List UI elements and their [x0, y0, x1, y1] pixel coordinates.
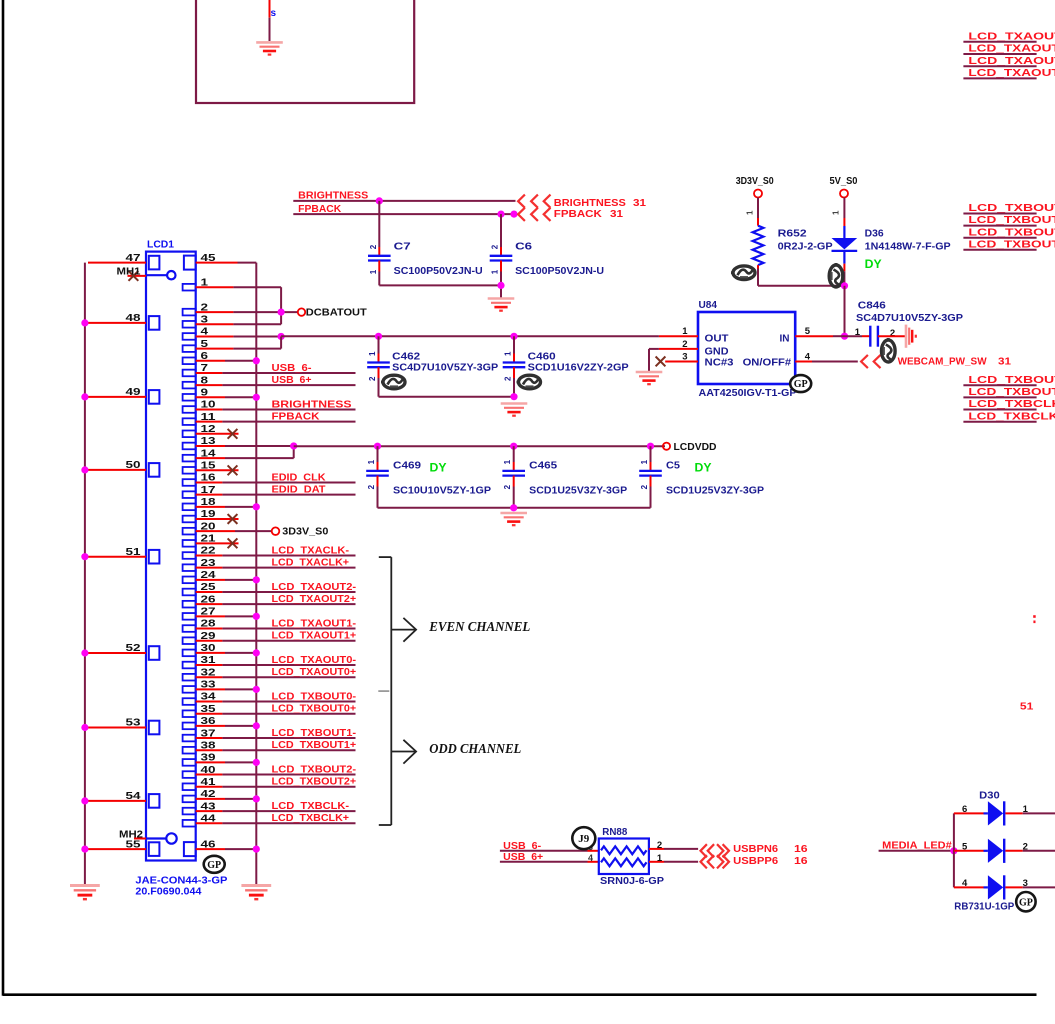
diode D30 element 4-3: [954, 886, 984, 888]
svg-text:LCD_TXBOUT2-: LCD_TXBOUT2-: [968, 375, 1055, 386]
svg-text:1: 1: [682, 326, 688, 337]
svg-text:3D3V_S0: 3D3V_S0: [282, 526, 328, 537]
wire: [757, 198, 759, 219]
pin 3 NC#3 wire: [665, 361, 698, 363]
svg-text:1: 1: [368, 351, 377, 356]
svg-text:1: 1: [746, 210, 755, 215]
DNI stamp: [381, 375, 405, 389]
svg-text:LCD_TXAOUT0+: LCD_TXAOUT0+: [968, 44, 1055, 55]
pin 12 (nc): [183, 431, 196, 438]
svg-text:47: 47: [126, 253, 142, 264]
mounting hole MH1: [167, 271, 175, 279]
svg-text:LCD_TXAOUT0-: LCD_TXAOUT0-: [272, 655, 357, 666]
svg-text:LCD_TXBOUT1+: LCD_TXBOUT1+: [272, 740, 357, 751]
capacitor C465: [513, 446, 515, 462]
svg-text:1: 1: [657, 853, 663, 864]
svg-text:SC100P50V2JN-U: SC100P50V2JN-U: [515, 266, 604, 277]
svg-text:5V_S0: 5V_S0: [830, 176, 858, 187]
pin 45: [184, 256, 196, 270]
svg-text:SCD1U16V2ZY-2GP: SCD1U16V2ZY-2GP: [528, 362, 629, 373]
svg-text:LCD_TXAOUT0+: LCD_TXAOUT0+: [272, 667, 357, 678]
pin 23 net LCD_TXACLK+: [183, 564, 196, 571]
pin 44 net LCD_TXBCLK+: [183, 820, 196, 827]
svg-text:GP: GP: [1019, 897, 1033, 908]
svg-text:2: 2: [368, 376, 377, 381]
pin 21 (nc): [183, 540, 196, 547]
ground: [256, 42, 283, 54]
pin 29 net LCD_TXAOUT1+: [183, 637, 196, 644]
svg-text:SC100P50V2JN-U: SC100P50V2JN-U: [394, 266, 483, 277]
svg-text:16: 16: [794, 856, 808, 867]
svg-text:DY: DY: [695, 463, 712, 475]
svg-text:2: 2: [1023, 841, 1028, 852]
pin 43 net LCD_TXBCLK-: [183, 808, 196, 815]
circled J9: [572, 827, 595, 849]
ground: [70, 886, 100, 900]
svg-text:2: 2: [503, 484, 512, 489]
svg-text:1: 1: [640, 459, 649, 464]
pin 2 + DCBATOUT: [183, 309, 196, 316]
pin 10 net BRIGHTNESS: [183, 406, 196, 413]
pin 40 net LCD_TXBOUT2-: [183, 771, 196, 778]
arrow ODD CHANNEL: [392, 751, 416, 753]
svg-text:C460: C460: [528, 352, 557, 363]
resistor RN88 element b: [601, 858, 647, 866]
svg-text:C846: C846: [858, 301, 887, 312]
pin 41 net LCD_TXBOUT2+: [183, 783, 196, 790]
DNI stamp: [829, 263, 843, 287]
pin 16 net EDID_CLK: [183, 479, 196, 486]
svg-text:1: 1: [369, 269, 378, 274]
wire pin4/5 to U84: [281, 335, 659, 337]
pin 8 net USB_6+: [183, 382, 196, 389]
svg-text:1: 1: [503, 459, 512, 464]
ground: [500, 513, 527, 525]
ground: [636, 372, 663, 384]
svg-text:1N4148W-7-F-GP: 1N4148W-7-F-GP: [865, 242, 951, 253]
GP stamp: [1016, 892, 1035, 911]
svg-text:4: 4: [805, 352, 811, 363]
svg-text:1: 1: [855, 327, 861, 338]
off-page connector USBPN6/USBPP6: [701, 844, 707, 857]
svg-text:31: 31: [610, 209, 624, 220]
svg-text:LCD_TXBOUT1+: LCD_TXBOUT1+: [968, 239, 1055, 250]
svg-text:50: 50: [126, 460, 142, 471]
svg-text:AAT4250IGV-T1-GP: AAT4250IGV-T1-GP: [699, 388, 797, 399]
svg-text:BRIGHTNESS: BRIGHTNESS: [554, 198, 626, 209]
wire: [844, 286, 846, 336]
resistor RN88 element a: [601, 846, 647, 854]
pin 42 (gnd): [183, 796, 196, 803]
svg-text:USBPN6: USBPN6: [733, 844, 778, 855]
pin 34 net LCD_TXBOUT0-: [183, 698, 196, 705]
pin 22 net LCD_TXACLK-: [183, 552, 196, 559]
svg-text:EDID_DAT: EDID_DAT: [272, 484, 326, 495]
svg-text:RN88: RN88: [602, 827, 627, 838]
svg-text:2: 2: [640, 484, 649, 489]
svg-text:C462: C462: [392, 352, 421, 363]
svg-text:LCD_TXAOUT1-: LCD_TXAOUT1-: [968, 56, 1055, 67]
svg-text:5: 5: [805, 326, 811, 337]
pin 17 net EDID_DAT: [183, 491, 196, 498]
arrow EVEN CHANNEL: [392, 629, 416, 631]
svg-text:SCD1U25V3ZY-3GP: SCD1U25V3ZY-3GP: [529, 485, 627, 496]
diode D36: [843, 226, 845, 238]
ground: [241, 886, 271, 900]
pin 3: [183, 321, 196, 328]
capacitor C5: [650, 446, 652, 462]
svg-text:LCD1: LCD1: [147, 240, 174, 251]
svg-text:LCD_TXBOUT0+: LCD_TXBOUT0+: [272, 704, 357, 715]
svg-text:31: 31: [633, 198, 647, 209]
pin 52: [149, 646, 160, 660]
ground: [501, 404, 528, 416]
pin 15 (nc): [183, 467, 196, 474]
pin 11 net FPBACK: [183, 418, 196, 425]
pin 2 GND wire: [659, 348, 698, 350]
svg-text:LCD_TXBCLK-: LCD_TXBCLK-: [272, 801, 350, 812]
pin 5 IN wire: [795, 335, 833, 337]
svg-text:SC10U10V5ZY-1GP: SC10U10V5ZY-1GP: [393, 485, 491, 496]
pin 48: [149, 316, 160, 330]
svg-text:4: 4: [588, 853, 593, 863]
svg-text:ON/OFF#: ON/OFF#: [743, 358, 792, 369]
svg-text:LCD_TXAOUT1-: LCD_TXAOUT1-: [272, 618, 357, 629]
pin 31 net LCD_TXAOUT0-: [183, 662, 196, 669]
svg-text:USBPP6: USBPP6: [733, 856, 778, 867]
connector LCD1 body: [146, 252, 196, 861]
svg-text:IN: IN: [780, 333, 790, 344]
diode D30 element 5-2: [954, 850, 984, 852]
pin 35 net LCD_TXBOUT0+: [183, 710, 196, 717]
svg-text:U84: U84: [699, 300, 718, 311]
svg-text:D36: D36: [865, 228, 884, 239]
svg-text:3: 3: [682, 352, 687, 363]
svg-text:GP: GP: [207, 860, 221, 871]
svg-text:NC#3: NC#3: [705, 358, 734, 369]
junction: [497, 211, 504, 218]
pin 38 net LCD_TXBOUT1+: [183, 747, 196, 754]
wire: [269, 0, 271, 18]
pin 1 wire: [649, 861, 664, 863]
pin 54: [149, 794, 160, 808]
sheet frame left border: [2, 0, 5, 996]
DNI stamp: [882, 338, 896, 362]
pin 55: [149, 842, 160, 856]
svg-text:6: 6: [962, 804, 967, 815]
svg-text:D30: D30: [979, 791, 1000, 802]
svg-text:J9: J9: [578, 833, 590, 845]
resistor network RN88 body: [599, 839, 649, 875]
capacitor C7: [378, 201, 380, 247]
svg-text:LCD_TXAOUT0-: LCD_TXAOUT0-: [968, 31, 1055, 42]
op-amp U84 body: [698, 312, 795, 384]
svg-text:2: 2: [682, 339, 687, 350]
svg-text:51: 51: [1020, 701, 1034, 713]
GP stamp: [204, 856, 225, 873]
wire caps gnd rail: [379, 396, 515, 398]
svg-text:1: 1: [1023, 804, 1029, 815]
svg-text:5: 5: [962, 841, 968, 852]
svg-text:EDID_CLK: EDID_CLK: [272, 472, 327, 483]
pin 37 net LCD_TXBOUT1-: [183, 735, 196, 742]
pin 33 (gnd): [183, 686, 196, 693]
svg-text:49: 49: [126, 387, 142, 398]
svg-text:1: 1: [504, 351, 513, 356]
diode D30 element 6-1: [954, 812, 984, 814]
svg-text:LCD_TXBOUT2+: LCD_TXBOUT2+: [272, 777, 357, 788]
svg-text:LCD_TXBOUT0-: LCD_TXBOUT0-: [968, 203, 1055, 214]
svg-text:BRIGHTNESS: BRIGHTNESS: [272, 399, 352, 410]
capacitor C460: [513, 336, 515, 353]
svg-text:2: 2: [369, 244, 378, 249]
svg-text:SC4D7U10V5ZY-3GP: SC4D7U10V5ZY-3GP: [856, 313, 963, 324]
svg-text:C465: C465: [529, 460, 558, 471]
wire: [843, 264, 845, 272]
junction: [841, 282, 848, 289]
svg-text:LCD_TXAOUT2+: LCD_TXAOUT2+: [272, 594, 357, 605]
svg-text:1: 1: [491, 269, 500, 274]
pin 46: [184, 842, 196, 856]
pin 5: [183, 345, 196, 352]
svg-text:LCDVDD: LCDVDD: [674, 442, 717, 453]
pin 32 net LCD_TXAOUT0+: [183, 674, 196, 681]
svg-text:2: 2: [367, 484, 376, 489]
pin 25 net LCD_TXAOUT2-: [183, 589, 196, 596]
pin 2 wire: [649, 848, 664, 850]
svg-text:LCD_TXBCLK-: LCD_TXBCLK-: [968, 399, 1055, 410]
svg-text:OUT: OUT: [705, 333, 729, 344]
svg-text:20.F0690.044: 20.F0690.044: [135, 887, 201, 898]
svg-text:R652: R652: [778, 228, 808, 239]
svg-text:55: 55: [126, 839, 142, 850]
pin 28 net LCD_TXAOUT1-: [183, 625, 196, 632]
bracket even/odd channels: [390, 557, 392, 825]
svg-text:LCD_TXAOUT1+: LCD_TXAOUT1+: [272, 630, 357, 641]
svg-text:3D3V_S0: 3D3V_S0: [736, 176, 774, 187]
pin 9 (gnd): [183, 394, 196, 401]
resistor R652: [753, 226, 764, 265]
svg-text:1: 1: [832, 210, 841, 215]
svg-text:1: 1: [367, 459, 376, 464]
svg-text:LCD_TXACLK+: LCD_TXACLK+: [272, 557, 350, 568]
svg-text:LCD_TXACLK-: LCD_TXACLK-: [272, 545, 350, 556]
pin 20 3D3V_S0: [183, 528, 196, 535]
svg-text:LCD_TXBOUT1-: LCD_TXBOUT1-: [968, 227, 1055, 238]
right ground bus: [255, 263, 257, 884]
wire: [843, 198, 845, 219]
svg-text:LCD_TXAOUT1+: LCD_TXAOUT1+: [968, 68, 1055, 79]
pin 7 net USB_6-: [183, 370, 196, 377]
svg-text:USB_6+: USB_6+: [272, 375, 312, 386]
pin 13 LCDVDD feed: [183, 443, 196, 450]
junction: [497, 282, 504, 289]
mounting hole MH2: [166, 833, 176, 843]
pin 30 (gnd): [183, 650, 196, 657]
off-page connector WEBCAM_PW_SW: [861, 355, 868, 368]
svg-text:GND: GND: [705, 346, 729, 357]
junction: [841, 333, 848, 340]
left ground bus: [84, 263, 86, 884]
svg-text:DCBATOUT: DCBATOUT: [306, 307, 367, 318]
svg-text:JAE-CON44-3-GP: JAE-CON44-3-GP: [135, 875, 227, 886]
pin 4: [183, 333, 196, 340]
svg-text:MH1: MH1: [117, 267, 141, 278]
hierarchical block (clipped at top): [196, 0, 414, 103]
off-page connector chevrons BRIGHTNESS/FPBACK: [518, 195, 525, 208]
svg-text:ODD CHANNEL: ODD CHANNEL: [429, 741, 521, 756]
pin 6 (gnd): [183, 357, 196, 364]
svg-text:LCD_TXBOUT1-: LCD_TXBOUT1-: [272, 728, 357, 739]
capacitor C462: [378, 336, 380, 353]
ground: [488, 299, 515, 311]
wire: [648, 349, 650, 371]
svg-text:LCD_TXBOUT2+: LCD_TXBOUT2+: [968, 387, 1055, 398]
GP stamp: [790, 375, 811, 392]
svg-text:51: 51: [126, 547, 142, 558]
svg-text:4: 4: [962, 878, 968, 889]
pin 47: [149, 256, 160, 270]
svg-text:LCD_TXBOUT0-: LCD_TXBOUT0-: [272, 691, 357, 702]
junction: [376, 197, 383, 204]
svg-text:C7: C7: [394, 241, 412, 252]
svg-text:31: 31: [998, 356, 1012, 367]
svg-text:3: 3: [1023, 878, 1028, 889]
svg-text:SC4D7U10V5ZY-3GP: SC4D7U10V5ZY-3GP: [392, 362, 498, 373]
svg-text:MH2: MH2: [119, 829, 143, 840]
svg-text:LCD_TXBOUT0+: LCD_TXBOUT0+: [968, 215, 1055, 226]
wire caps gnd rail: [378, 507, 651, 509]
pin 53: [149, 721, 160, 735]
pin 18 (gnd): [183, 504, 196, 511]
pin 1 OUT wire: [659, 335, 698, 337]
svg-text:16: 16: [794, 844, 808, 855]
svg-text:LCD_TXBCLK+: LCD_TXBCLK+: [968, 411, 1055, 422]
wire: [757, 265, 759, 268]
pin 39 (gnd): [183, 759, 196, 766]
DNI stamp: [731, 266, 755, 280]
svg-text:SCD1U25V3ZY-3GP: SCD1U25V3ZY-3GP: [666, 485, 764, 496]
red fragment: [1033, 617, 1036, 622]
svg-text:0R2J-2-GP: 0R2J-2-GP: [778, 242, 833, 253]
svg-text:FPBACK: FPBACK: [554, 209, 603, 220]
no-connect X: [656, 357, 666, 367]
svg-text:EVEN CHANNEL: EVEN CHANNEL: [428, 619, 530, 634]
pin 50: [149, 463, 160, 477]
svg-text:FPBACK: FPBACK: [272, 411, 321, 422]
svg-text:C469: C469: [393, 460, 422, 471]
capacitor C846: [845, 335, 863, 337]
svg-text:2: 2: [491, 244, 500, 249]
pin 36 (gnd): [183, 723, 196, 730]
svg-text:2: 2: [657, 840, 662, 851]
svg-text:LCD_TXBCLK+: LCD_TXBCLK+: [272, 813, 350, 824]
pin 19 (nc): [183, 516, 196, 523]
svg-text:DY: DY: [430, 463, 447, 475]
svg-text:C6: C6: [515, 241, 533, 252]
capacitor C469: [377, 446, 379, 462]
sideways ground: [906, 325, 916, 348]
svg-text:DY: DY: [865, 259, 882, 271]
svg-text:54: 54: [126, 791, 142, 802]
svg-text:2: 2: [504, 376, 513, 381]
wire C7-C6 bottom: [379, 284, 501, 286]
pin 27 (gnd): [183, 613, 196, 620]
pin 1: [183, 284, 196, 291]
svg-text:53: 53: [126, 718, 142, 729]
junction: [510, 211, 517, 218]
svg-text:48: 48: [126, 313, 142, 324]
svg-text:52: 52: [126, 643, 142, 654]
pin 51: [149, 550, 160, 564]
svg-text:SRN0J-6-GP: SRN0J-6-GP: [600, 876, 664, 887]
svg-text:LCD_TXAOUT2-: LCD_TXAOUT2-: [272, 582, 357, 593]
svg-text:C5: C5: [666, 460, 680, 471]
sheet frame bottom border: [3, 993, 1037, 996]
svg-text:GP: GP: [794, 379, 808, 390]
pin 49: [149, 390, 160, 404]
wire: [269, 18, 271, 41]
svg-text:s: s: [271, 8, 277, 19]
svg-text:LCD_TXBOUT2-: LCD_TXBOUT2-: [272, 764, 357, 775]
wire D30 anode bus: [953, 813, 955, 887]
svg-text:WEBCAM_PW_SW: WEBCAM_PW_SW: [898, 356, 988, 367]
pin 4 ON/OFF# wire: [795, 361, 812, 363]
capacitor C6: [500, 214, 502, 247]
pin 24 (gnd): [183, 577, 196, 584]
net LCDVDD wire: [294, 445, 665, 447]
pin 14: [183, 455, 196, 462]
svg-text:RB731U-1GP: RB731U-1GP: [954, 902, 1014, 913]
svg-text:USB_6-: USB_6-: [272, 363, 312, 374]
pin 26 net LCD_TXAOUT2+: [183, 601, 196, 608]
DNI stamp: [517, 375, 541, 389]
